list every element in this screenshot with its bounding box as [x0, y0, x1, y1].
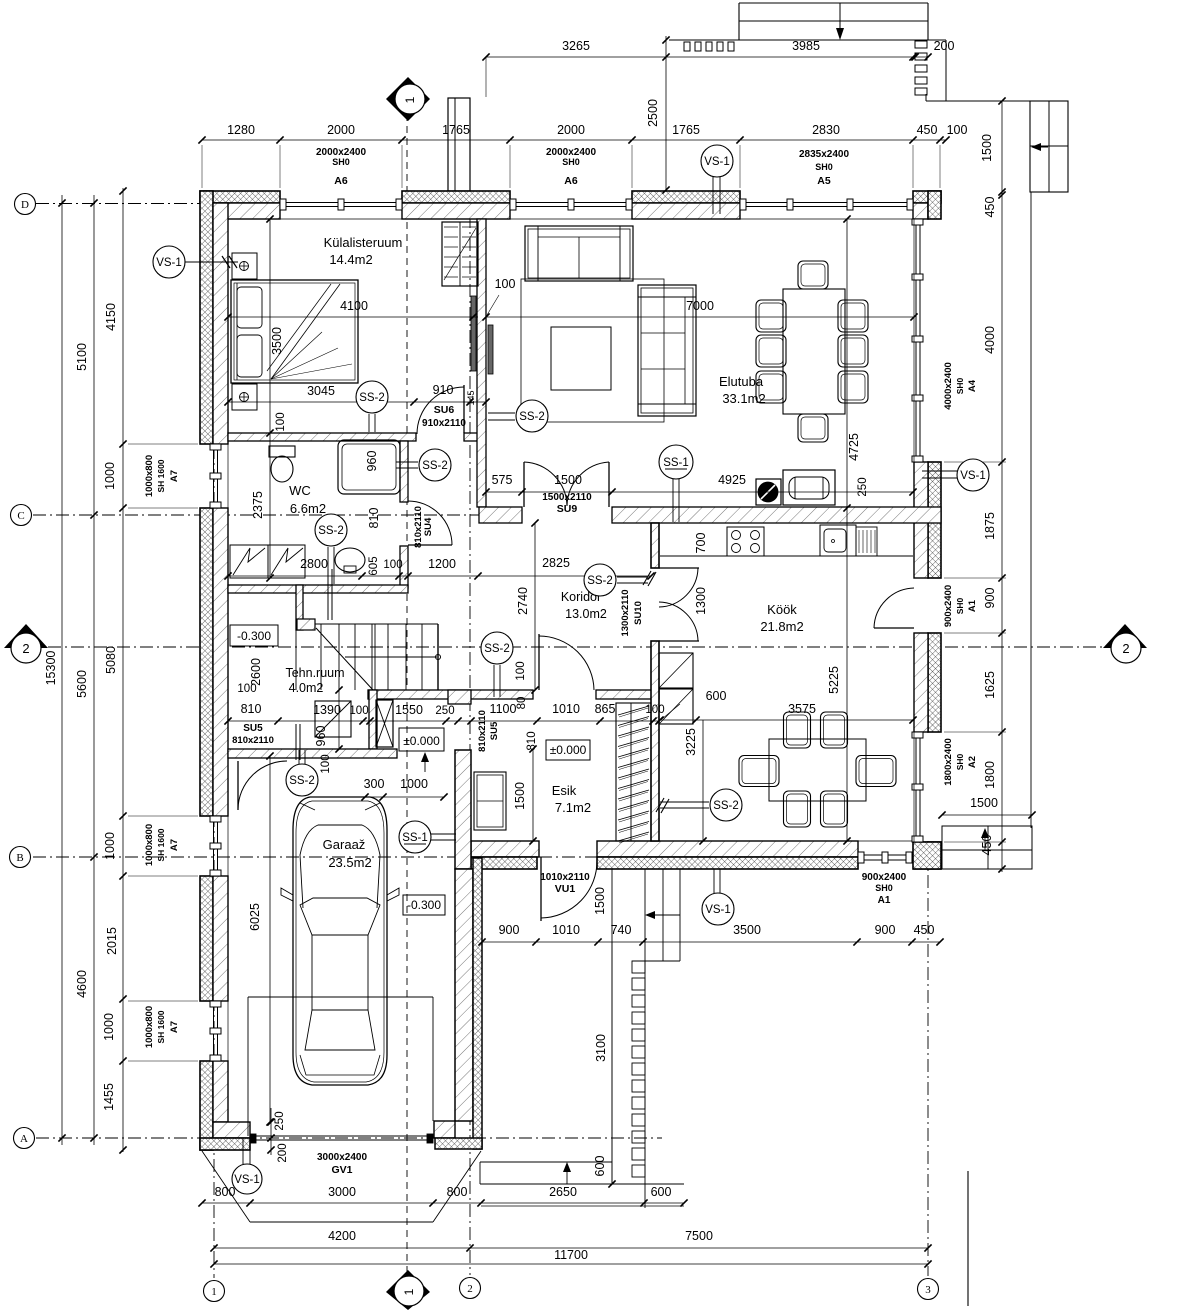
svg-text:A5: A5 [817, 175, 831, 187]
svg-text:Garaaž: Garaaž [323, 837, 366, 852]
window glyph left wall [213, 444, 215, 508]
svg-text:4200: 4200 [328, 1229, 356, 1243]
svg-text:900: 900 [499, 923, 520, 937]
svg-text:450: 450 [917, 123, 938, 137]
svg-text:740: 740 [611, 923, 632, 937]
svg-text:100: 100 [349, 705, 368, 717]
svg-text:14.4m2: 14.4m2 [329, 252, 372, 267]
TV guest side [471, 296, 476, 371]
chair [756, 300, 786, 332]
left wall bottom step [213, 1122, 250, 1138]
right steps squares column [915, 41, 927, 48]
top wall outer leaf [913, 191, 941, 203]
svg-text:4600: 4600 [75, 970, 89, 998]
svg-text:2: 2 [467, 1283, 473, 1295]
dim 3265 [486, 56, 666, 58]
right wall outer leaf [928, 842, 941, 869]
porch lines right of entry [611, 869, 613, 1184]
top wall outer leaf [402, 191, 510, 203]
ref circle SS-2 [419, 449, 451, 481]
axis marker 2 [460, 1278, 481, 1299]
left dim chain line [122, 188, 124, 1152]
window 900x2400 in south wall [858, 854, 912, 856]
duct with X [376, 700, 393, 747]
door SU2 leaf+arc [538, 634, 540, 690]
svg-text:1000: 1000 [102, 1013, 116, 1041]
dining table [783, 289, 845, 414]
svg-text:1300x2110: 1300x2110 [620, 589, 631, 636]
svg-text:4925: 4925 [718, 473, 746, 487]
chair [739, 756, 779, 787]
garage slab rectangle [248, 996, 433, 998]
dim line 2800/605/100/1200/2825 [228, 575, 651, 577]
svg-text:700: 700 [694, 533, 708, 554]
svg-text:SH 1600: SH 1600 [156, 1010, 166, 1043]
svg-text:21.8m2: 21.8m2 [760, 619, 803, 634]
svg-text:200: 200 [277, 1143, 289, 1162]
toilet [269, 446, 295, 457]
pillow 1 [237, 287, 262, 328]
top wall inner leaf [402, 203, 510, 219]
axis D line [36, 203, 200, 205]
section marker 1 top [386, 77, 430, 121]
svg-text:1010x2110: 1010x2110 [540, 872, 590, 883]
top dimension line [202, 139, 946, 141]
svg-text:810x2110: 810x2110 [477, 710, 488, 752]
svg-text:23.5m2: 23.5m2 [328, 855, 371, 870]
dim 4725/5225 vertical [846, 219, 848, 841]
svg-text:100: 100 [495, 277, 516, 291]
left wall outer leaf [200, 876, 213, 1001]
headlights [300, 803, 380, 810]
svg-text:2: 2 [22, 641, 29, 656]
svg-text:800: 800 [447, 1185, 468, 1199]
nightstand top [232, 253, 257, 279]
svg-text:-0.300: -0.300 [407, 898, 441, 912]
svg-text:VU1: VU1 [555, 883, 576, 895]
svg-text:1500: 1500 [980, 134, 994, 162]
pillow 2 [237, 335, 262, 377]
deck arrow [839, 3, 841, 36]
svg-text:100: 100 [275, 412, 287, 431]
entrance terrace bottom [480, 1161, 612, 1163]
svg-text:3500: 3500 [270, 327, 284, 355]
svg-text:900: 900 [983, 588, 997, 609]
right wall inner leaf [914, 633, 928, 732]
svg-text:SH0: SH0 [955, 377, 965, 394]
svg-text:5100: 5100 [75, 343, 89, 371]
svg-text:2800: 2800 [300, 557, 328, 571]
chair [821, 712, 848, 748]
svg-text:100: 100 [645, 704, 664, 716]
svg-text:5600: 5600 [75, 670, 89, 698]
svg-text:3100: 3100 [594, 1034, 608, 1062]
svg-text:SU5: SU5 [243, 723, 263, 734]
svg-text:1500x2110: 1500x2110 [542, 492, 592, 503]
garage east wall inner leaf [455, 869, 473, 1121]
ref circle VS-1 [153, 246, 185, 278]
right wall outer leaf [928, 462, 941, 578]
svg-text:1000: 1000 [103, 832, 117, 860]
svg-text:1: 1 [403, 96, 417, 103]
svg-text:SH0: SH0 [875, 883, 893, 893]
svg-text:33.1m2: 33.1m2 [722, 391, 765, 406]
svg-text:A4: A4 [967, 379, 978, 392]
wall piece left of stairs [296, 585, 303, 630]
svg-text:7500: 7500 [685, 1229, 713, 1243]
svg-text:6.6m2: 6.6m2 [290, 501, 326, 516]
garage bottom right corner [435, 1138, 482, 1149]
svg-text:450: 450 [983, 197, 997, 218]
ref circle SS-2 [516, 400, 548, 432]
stove bench [783, 470, 835, 505]
chair [821, 791, 848, 827]
site boundary line bottom right [967, 1171, 969, 1306]
dim 7000 living [486, 316, 914, 318]
svg-text:SU6: SU6 [434, 404, 455, 416]
svg-text:SS-2: SS-2 [713, 800, 739, 812]
svg-text:5225: 5225 [827, 666, 841, 694]
svg-text:13.0m2: 13.0m2 [565, 607, 607, 621]
right top 1500 dim [1001, 101, 1003, 192]
chair [838, 335, 868, 367]
dim line 2650/600 [481, 1205, 684, 1207]
svg-text:2835x2400: 2835x2400 [799, 149, 849, 160]
wall lamp symbols [240, 262, 249, 271]
wall between guest room and WC [228, 433, 416, 441]
door SU5 garage/tehn leaf+arc [237, 761, 239, 810]
svg-text:810: 810 [367, 508, 381, 529]
level box ±0.000 [546, 740, 590, 760]
svg-text:1000x800: 1000x800 [144, 455, 155, 497]
chair [756, 371, 786, 403]
svg-text:3985: 3985 [792, 39, 820, 53]
left wall outer leaf [200, 508, 213, 816]
svg-text:1800x2400: 1800x2400 [943, 738, 954, 786]
svg-text:600: 600 [651, 1185, 672, 1199]
svg-text:1455: 1455 [102, 1083, 116, 1111]
svg-text:4000: 4000 [983, 326, 997, 354]
ref circle VS-1 [957, 459, 989, 491]
wall piece right of door SU6 [464, 433, 478, 441]
svg-text:3045: 3045 [307, 384, 335, 398]
ref circle SS-2 [315, 514, 347, 546]
svg-text:A7: A7 [169, 470, 180, 482]
rear platform [942, 826, 1032, 869]
chair [784, 712, 811, 748]
axis A line [36, 1137, 662, 1139]
svg-text:600: 600 [593, 1156, 607, 1177]
svg-text:VS-1: VS-1 [156, 257, 182, 269]
stair corner block [297, 619, 315, 630]
Esik west wall [455, 750, 471, 869]
axis marker B [10, 847, 31, 868]
axis marker 1 [204, 1281, 225, 1302]
bottom right 1500 dim + platform [942, 814, 1032, 816]
washer/dryer zigzag counters [230, 545, 268, 578]
hob [727, 527, 764, 556]
stair left boundary [295, 630, 297, 690]
svg-text:810: 810 [526, 731, 538, 750]
svg-text:2015: 2015 [105, 927, 119, 955]
svg-text:2: 2 [1122, 641, 1129, 656]
door SU4 (WC) leaf+arc [408, 544, 452, 546]
svg-text:VS-1: VS-1 [234, 1174, 260, 1186]
svg-text:15300: 15300 [44, 651, 58, 686]
svg-text:1500: 1500 [593, 887, 607, 915]
south wall outer leaf [471, 857, 537, 869]
dim 300/1000 [365, 796, 444, 798]
chair [798, 261, 828, 289]
svg-text:910: 910 [433, 383, 454, 397]
ref circle SS-2 [356, 381, 388, 413]
axis 1 vertical line [213, 193, 215, 1278]
chair [784, 791, 811, 827]
outdoor steps strip [632, 961, 645, 973]
chair [856, 756, 896, 787]
axis 2 marker right [1103, 624, 1147, 648]
guest room east wall [477, 219, 486, 507]
svg-text:2000: 2000 [327, 123, 355, 137]
svg-text:1: 1 [211, 1286, 217, 1298]
garage apron trapezoid [202, 1151, 250, 1222]
svg-text:1500: 1500 [513, 782, 527, 810]
south wall inner leaf [471, 841, 539, 857]
dim 1500 esik vertical [532, 749, 534, 841]
svg-text:250: 250 [435, 705, 454, 717]
WC east wall lower [400, 546, 408, 588]
svg-text:SU10: SU10 [633, 601, 644, 625]
svg-text:3265: 3265 [562, 39, 590, 53]
right outer extension line [1030, 192, 1032, 828]
level box -0.300 [403, 895, 445, 915]
svg-text:SS-2: SS-2 [359, 392, 385, 404]
svg-text:7.1m2: 7.1m2 [555, 800, 591, 815]
svg-text:SH0: SH0 [332, 157, 350, 167]
svg-text:4150: 4150 [104, 303, 118, 331]
svg-text:810: 810 [241, 702, 262, 716]
shower [338, 440, 400, 494]
svg-text:±0.000: ±0.000 [403, 734, 440, 748]
porch top line [926, 100, 1030, 102]
window glyph [280, 202, 402, 204]
svg-text:4725: 4725 [847, 433, 861, 461]
svg-text:900x2400: 900x2400 [862, 872, 907, 883]
dim 3985 [666, 56, 928, 58]
right wall outer leaf [928, 633, 941, 732]
svg-text:100: 100 [383, 559, 402, 571]
deck lower edge line [669, 39, 946, 41]
svg-text:A6: A6 [334, 175, 348, 187]
svg-text:605: 605 [368, 556, 380, 575]
corridor top wall left piece [479, 507, 522, 523]
section marker 1 bottom [386, 1270, 430, 1310]
svg-text:SS-2: SS-2 [318, 525, 344, 537]
svg-text:2740: 2740 [516, 587, 530, 615]
svg-text:100: 100 [237, 683, 256, 695]
stairs [315, 623, 438, 625]
stair diagonal break line [316, 628, 373, 690]
svg-text:SS-1: SS-1 [402, 832, 428, 844]
right dim chain line [1001, 192, 1003, 872]
svg-text:Elutuba: Elutuba [719, 374, 764, 389]
TV living side [488, 325, 493, 374]
svg-text:C: C [17, 510, 24, 522]
door SU10 upper leaf+arc [659, 567, 699, 569]
ref circle SS-2 [286, 764, 318, 796]
svg-text:1765: 1765 [442, 123, 470, 137]
svg-text:4000x2400: 4000x2400 [943, 362, 954, 410]
svg-text:VS-1: VS-1 [704, 156, 730, 168]
svg-text:1875: 1875 [983, 512, 997, 540]
svg-text:2000: 2000 [557, 123, 585, 137]
axis 2 marker left [4, 624, 48, 648]
left wall outer leaf [200, 191, 213, 444]
left wall inner leaf [213, 1061, 228, 1122]
svg-text:3225: 3225 [684, 728, 698, 756]
coat closet with hangers [616, 703, 651, 841]
svg-text:4100: 4100 [340, 299, 368, 313]
dim 2740/2825 corridor [534, 523, 536, 690]
svg-text:B: B [16, 852, 23, 864]
shoe cabinet [474, 772, 506, 830]
svg-text:960: 960 [365, 451, 379, 472]
right wall inner leaf [914, 462, 928, 578]
svg-text:SH0: SH0 [955, 597, 965, 614]
bed [231, 280, 358, 383]
plumbing riser lines [327, 569, 329, 620]
door A1 kitchen right leaf+arc [874, 627, 914, 629]
window glyph [740, 202, 913, 204]
level box ±0.000 [399, 728, 444, 751]
right wall inner leaf [914, 842, 928, 869]
svg-text:Külalisteruum: Külalisteruum [324, 235, 403, 250]
svg-text:A6: A6 [564, 175, 578, 187]
svg-text:1280: 1280 [227, 123, 255, 137]
svg-text:1010: 1010 [552, 702, 580, 716]
svg-text:145: 145 [466, 390, 476, 405]
ref circle VS-1 [701, 145, 733, 177]
svg-text:SU9: SU9 [557, 503, 578, 515]
kitchen tall units with diagonal [659, 653, 693, 688]
door SU10 lower leaf+arc [659, 640, 699, 642]
garage top wall [228, 749, 397, 758]
ref circle SS-1 [399, 821, 431, 853]
svg-text:11700: 11700 [554, 1248, 588, 1262]
svg-text:1300: 1300 [694, 587, 708, 615]
kitchen west wall above door SU10 [651, 523, 659, 568]
kitchen counter edge [660, 555, 913, 557]
chair [798, 414, 828, 442]
window glyph right wall [915, 219, 917, 462]
dim 6025 vertical [269, 756, 271, 1122]
chair [756, 335, 786, 367]
deck right edge [945, 40, 947, 101]
south wall inner leaf [597, 841, 858, 857]
door SU6 (guest room) leaf+arc [463, 385, 465, 433]
dim 3045/910/145 [228, 401, 486, 403]
svg-text:1000: 1000 [103, 462, 117, 490]
top wall inner leaf [213, 203, 280, 219]
dim line 575/1500/4925 [486, 491, 913, 493]
svg-text:2825: 2825 [542, 556, 570, 570]
axis B line [33, 856, 742, 858]
svg-text:1100: 1100 [490, 702, 517, 716]
svg-text:910x2110: 910x2110 [422, 418, 466, 429]
svg-text:450: 450 [914, 923, 935, 937]
svg-text:2650: 2650 [549, 1185, 577, 1199]
left wall outer leaf [200, 1061, 213, 1150]
kitchen dims [660, 719, 913, 721]
svg-text:1765: 1765 [672, 123, 700, 137]
entrance porch top right [1030, 101, 1068, 192]
svg-text:1000x800: 1000x800 [144, 824, 155, 866]
dim 2500 vertical [665, 36, 667, 190]
svg-text:600: 600 [706, 689, 727, 703]
south wall corner block right [913, 842, 941, 869]
blanket fold lines [271, 284, 340, 379]
ref circle SS-2 [481, 632, 513, 664]
svg-text:SS-2: SS-2 [422, 460, 448, 472]
svg-text:100: 100 [515, 661, 527, 680]
ref circle VS-1 [232, 1164, 262, 1194]
coffee table [551, 327, 611, 390]
dim 3500/2375 vertical [269, 219, 271, 578]
svg-text:A: A [20, 1133, 28, 1145]
axis marker D [15, 194, 36, 215]
svg-text:SH0: SH0 [562, 157, 580, 167]
boiler [315, 701, 351, 737]
svg-text:575: 575 [492, 473, 513, 487]
guest wardrobe [442, 222, 478, 286]
garage east wall outer leaf [473, 858, 482, 1149]
svg-text:A7: A7 [169, 839, 180, 851]
svg-text:2500: 2500 [646, 99, 660, 127]
svg-text:100: 100 [320, 754, 332, 773]
svg-text:3500: 3500 [733, 923, 761, 937]
corridor bottom wall west part [368, 690, 533, 699]
svg-text:1500: 1500 [554, 473, 582, 487]
svg-text:GV1: GV1 [331, 1164, 352, 1176]
sofa right (vertical) [638, 285, 696, 416]
svg-text:Esik: Esik [552, 783, 577, 798]
garage door GV1 [250, 1135, 433, 1137]
svg-text:1010: 1010 [552, 923, 580, 937]
WC bottom wall [228, 585, 408, 593]
svg-text:250: 250 [274, 1111, 286, 1130]
svg-text:A2: A2 [967, 756, 978, 768]
axis marker A [14, 1128, 35, 1149]
svg-text:SS-2: SS-2 [519, 411, 545, 423]
svg-text:7000: 7000 [686, 299, 714, 313]
svg-text:SH0: SH0 [815, 162, 833, 172]
svg-text:1800: 1800 [983, 761, 997, 789]
svg-text:A1: A1 [878, 895, 891, 906]
svg-text:A7: A7 [169, 1021, 180, 1033]
axis 2 vertical line [469, 100, 471, 1275]
svg-text:2600: 2600 [249, 658, 263, 686]
svg-text:2830: 2830 [812, 123, 840, 137]
garage east wall bottom step [434, 1121, 455, 1138]
washbasin [335, 548, 365, 572]
svg-text:3: 3 [925, 1284, 931, 1296]
ref circle SS-2 [584, 564, 616, 596]
svg-text:SS-2: SS-2 [289, 775, 315, 787]
left wall inner leaf [213, 203, 228, 444]
sink [820, 525, 856, 556]
nightstand bottom [232, 384, 257, 410]
axis marker 3 [918, 1279, 939, 1300]
